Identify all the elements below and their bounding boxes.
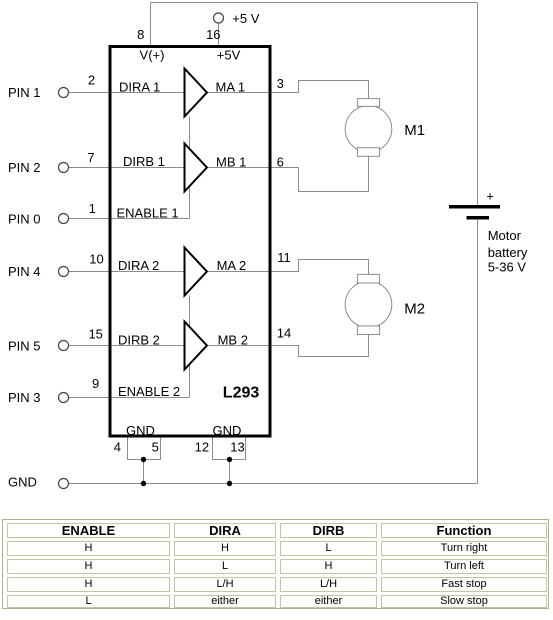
wire ENABLE1	[68, 218, 189, 220]
terminal +5V supply	[214, 13, 224, 23]
junction dot bus left	[141, 481, 146, 486]
wire row1 MA1 to motor M1 top	[207, 81, 369, 100]
wire row2 MB1 to motor M1 bottom	[207, 156, 369, 192]
svg-text:PIN 5: PIN 5	[8, 338, 41, 353]
svg-text:+: +	[486, 188, 494, 203]
svg-text:M2: M2	[404, 301, 425, 318]
svg-text:DIRB 2: DIRB 2	[118, 333, 160, 348]
svg-text:15: 15	[88, 326, 102, 341]
terminal PIN3	[59, 393, 69, 403]
wire row3 DIRA2 left	[68, 271, 184, 273]
wire battery vertical lower	[477, 220, 479, 484]
svg-text:DIRB 1: DIRB 1	[123, 154, 165, 169]
wire GND bus	[68, 483, 477, 485]
svg-text:DIRA 1: DIRA 1	[119, 80, 160, 95]
wire GND pin 12-13 staple	[213, 436, 246, 460]
svg-text:8: 8	[137, 27, 144, 42]
svg-text:5: 5	[152, 440, 159, 455]
IC U1 L293 body	[110, 47, 270, 437]
svg-text:MA 1: MA 1	[216, 80, 246, 95]
wire pin8 drop	[150, 3, 152, 47]
svg-text:+5 V: +5 V	[232, 11, 259, 26]
wire row4 DIRB2 left	[68, 345, 184, 347]
svg-text:ENABLE 2: ENABLE 2	[118, 384, 180, 399]
svg-text:PIN 4: PIN 4	[8, 264, 41, 279]
svg-text:PIN 1: PIN 1	[8, 85, 41, 100]
svg-text:12: 12	[195, 440, 209, 455]
wire row1 DIRA1 left	[68, 92, 184, 94]
svg-text:2: 2	[88, 73, 95, 88]
svg-text:ENABLE 1: ENABLE 1	[117, 206, 179, 221]
motor M2	[345, 274, 392, 334]
battery BT1 plate short	[467, 216, 490, 220]
buffer B1	[185, 144, 207, 192]
junction dot bus right	[227, 481, 232, 486]
svg-text:PIN 3: PIN 3	[8, 390, 41, 405]
svg-text:L293: L293	[223, 385, 260, 402]
svg-text:GND: GND	[126, 423, 155, 438]
wire pin16 from +5V terminal	[218, 23, 220, 46]
wire link buffer3-buffer4-enable2	[189, 296, 191, 398]
svg-text:GND: GND	[8, 475, 37, 490]
truth table	[2, 519, 549, 609]
svg-text:1: 1	[89, 201, 96, 216]
svg-text:14: 14	[277, 326, 291, 341]
svg-text:7: 7	[87, 150, 94, 165]
svg-text:DIRA 2: DIRA 2	[118, 258, 159, 273]
svg-text:M1: M1	[404, 122, 425, 139]
wire row4 MB2 to motor M2 bottom	[207, 334, 369, 356]
svg-text:MB 1: MB 1	[216, 155, 246, 170]
svg-text:GND: GND	[213, 423, 242, 438]
svg-text:PIN 0: PIN 0	[8, 212, 41, 227]
svg-text:13: 13	[230, 440, 244, 455]
svg-text:9: 9	[92, 376, 99, 391]
svg-text:11: 11	[277, 250, 291, 265]
wire GND pin 4-5 staple	[128, 436, 161, 460]
motor M1	[345, 99, 392, 157]
svg-text:3: 3	[277, 76, 284, 91]
wire row3 MA2 to motor M2 top	[207, 260, 369, 275]
terminal PIN2	[59, 163, 69, 173]
svg-text:6: 6	[277, 154, 284, 169]
buffer A1	[185, 69, 207, 117]
svg-text:MA 2: MA 2	[217, 258, 247, 273]
junction dot pins12-13	[227, 457, 232, 462]
terminal PIN5	[59, 341, 69, 351]
svg-text:+5V: +5V	[217, 48, 241, 63]
wire link buffer1-buffer2-enable1	[189, 117, 191, 219]
wire row2 DIRB1 left	[68, 167, 184, 169]
svg-text:MB 2: MB 2	[218, 333, 248, 348]
terminal PIN1	[59, 88, 69, 98]
junction dot pins4-5	[141, 457, 146, 462]
wire ENABLE2	[68, 397, 189, 399]
buffer B2	[185, 322, 207, 370]
terminal PIN4	[59, 267, 69, 277]
wire staple1 to bus	[143, 460, 145, 484]
svg-text:5-36 V: 5-36 V	[488, 260, 527, 275]
svg-text:V(+): V(+)	[140, 48, 165, 63]
svg-text:battery: battery	[488, 245, 528, 260]
terminal PIN0	[59, 214, 69, 224]
svg-text:4: 4	[114, 440, 121, 455]
wire top +V rail	[151, 2, 478, 4]
wire staple2 to bus	[229, 460, 231, 484]
svg-text:16: 16	[206, 27, 220, 42]
svg-text:PIN 2: PIN 2	[8, 160, 41, 175]
wire battery vertical upper	[477, 3, 479, 206]
buffer A2	[185, 248, 207, 296]
svg-text:Motor: Motor	[488, 228, 522, 243]
battery BT1 plate long	[449, 205, 500, 209]
terminal GND	[59, 479, 69, 489]
svg-text:10: 10	[89, 252, 103, 267]
